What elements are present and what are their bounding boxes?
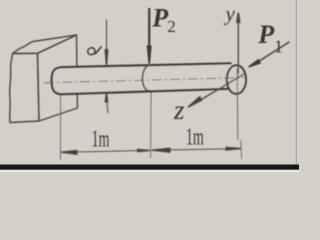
shaft root cap fill [52, 67, 62, 94]
svg-text:P: P [257, 20, 275, 49]
diameter dimension line lower [105, 92, 109, 113]
y axis lower continuation through origin [236, 68, 239, 140]
dimension line left span [61, 149, 150, 155]
scan bottom black bar [0, 165, 299, 170]
force P1 arrow [248, 42, 289, 68]
svg-text:1: 1 [274, 36, 283, 56]
svg-text:1m: 1m [92, 126, 110, 153]
shaft bottom edge [62, 89, 229, 94]
wall block front face (jagged left edge) [10, 53, 39, 122]
dimension line right span [152, 147, 242, 153]
extension line under section [150, 93, 152, 159]
right extension line [240, 140, 243, 159]
z axis [187, 74, 244, 108]
page background [0, 0, 299, 172]
wall block right face [38, 35, 78, 121]
y axis [236, 13, 241, 75]
diameter dimension line upper [105, 20, 109, 66]
section arc at load point [142, 65, 149, 91]
label d (hand-drawn italic, steep slant) [87, 46, 102, 55]
shaft top edge [62, 63, 232, 67]
shaft root cap (half ellipse at wall) [52, 67, 62, 94]
wall block top face (jagged back-left edge) [13, 35, 77, 54]
shaft root vertical centerline / left extension line [59, 96, 61, 161]
strip below scan bar [0, 170, 299, 173]
end face ellipse [227, 65, 246, 94]
svg-text:1m: 1m [186, 124, 204, 151]
shaft centerline (dash-dot) [44, 78, 246, 83]
scan page-edge vertical line [295, 0, 297, 165]
force P2 arrow [147, 8, 152, 64]
svg-text:y: y [224, 1, 236, 25]
svg-text:2: 2 [167, 17, 176, 36]
shaft body fill (occludes wall edge) [62, 63, 232, 94]
svg-text:z: z [173, 95, 185, 125]
